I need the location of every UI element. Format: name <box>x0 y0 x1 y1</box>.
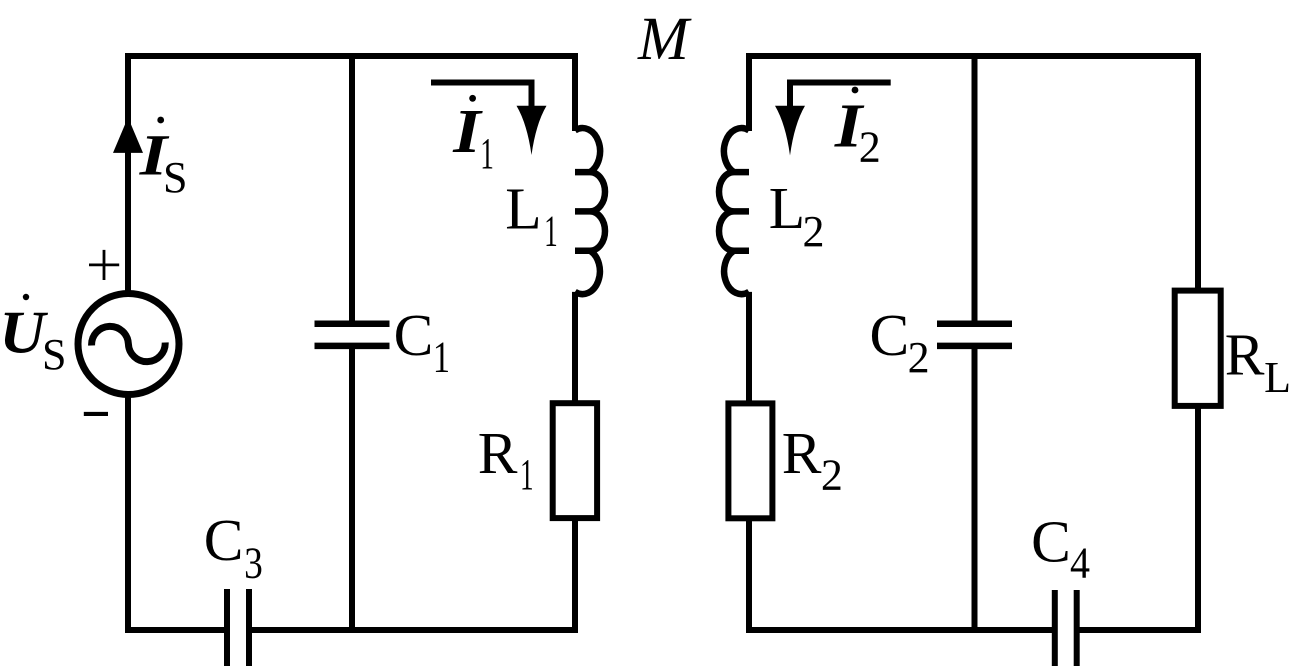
plus sign <box>89 250 119 280</box>
capacitor C3 right plate <box>246 589 252 666</box>
wire: L1 branch top <box>572 56 578 131</box>
dot over I_S <box>157 117 164 124</box>
wire: L1 to R1 <box>572 292 578 403</box>
dot over I_2 <box>852 87 859 94</box>
wire: right circuit top <box>746 53 1201 59</box>
svg-text:2: 2 <box>859 123 881 172</box>
svg-text:C: C <box>394 302 434 368</box>
svg-text:S: S <box>163 153 187 202</box>
capacitor C2 top plate <box>937 321 1012 328</box>
dot over U_S <box>23 294 29 300</box>
wire: L2 branch top <box>746 56 752 131</box>
source U_S circle <box>78 294 179 395</box>
svg-text:3: 3 <box>244 539 263 587</box>
wire: C2 branch upper <box>972 56 978 324</box>
svg-text:L: L <box>769 175 805 241</box>
resistor R2 (box) <box>728 403 772 518</box>
capacitor C1 bottom plate <box>315 343 390 350</box>
svg-text:M: M <box>637 6 692 73</box>
svg-text:1: 1 <box>480 128 494 177</box>
current I1 reference hook <box>431 83 532 109</box>
resistor RL (box) <box>1175 291 1221 406</box>
svg-text:1: 1 <box>544 206 558 255</box>
svg-text:2: 2 <box>908 333 930 382</box>
svg-text:C: C <box>1031 508 1071 574</box>
capacitor C1 top plate <box>315 321 390 328</box>
capacitor C3 left plate <box>224 589 230 666</box>
inductor L1 (coil, 4 turns) <box>575 128 605 294</box>
svg-text:L: L <box>1264 353 1290 402</box>
svg-text:4: 4 <box>1070 540 1090 588</box>
wire: left circuit bottom, right of C3 <box>249 627 578 633</box>
minus sign <box>84 412 108 416</box>
inductor L2 (coil, 4 turns) <box>719 128 749 294</box>
svg-text:I: I <box>452 98 483 166</box>
svg-text:R: R <box>782 420 822 486</box>
wire: L2 to R2 <box>746 292 752 404</box>
wire: left circuit top <box>125 53 578 59</box>
svg-text:2: 2 <box>821 450 843 499</box>
capacitor C4 right plate <box>1074 590 1080 666</box>
svg-text:L: L <box>505 176 541 242</box>
wire: right circuit bottom, left of C4 <box>746 627 1055 633</box>
current I2 arrowhead (down) <box>775 106 805 156</box>
svg-text:2: 2 <box>803 207 825 256</box>
wire: RL branch top <box>1195 56 1201 291</box>
current I1 arrowhead (down) <box>517 106 547 155</box>
capacitor C2 bottom plate <box>937 343 1012 350</box>
svg-text:C: C <box>204 507 244 573</box>
wire: RL to bottom <box>1195 406 1201 633</box>
svg-text:R: R <box>478 420 518 486</box>
svg-text:S: S <box>42 330 66 379</box>
dot over I_1 <box>469 95 476 102</box>
resistor R1 (box) <box>553 403 597 518</box>
wire: C2 branch lower <box>972 346 978 630</box>
wire: right circuit bottom, right of C4 <box>1077 627 1201 633</box>
wire: left circuit left side lower (source to bottom) <box>125 392 131 633</box>
wire: left circuit left side upper (source to top) <box>125 56 131 296</box>
source U_S sine wave <box>92 326 166 361</box>
wire: C1 branch lower <box>349 346 355 630</box>
svg-text:R: R <box>1225 322 1265 388</box>
current IS arrowhead (up) <box>113 117 143 152</box>
current I2 reference hook <box>790 83 891 109</box>
wire: left circuit bottom, left of C3 <box>125 627 227 633</box>
svg-text:C: C <box>870 302 910 368</box>
svg-text:1: 1 <box>433 332 450 381</box>
capacitor C4 left plate <box>1052 590 1058 666</box>
wire: R1 to bottom <box>572 518 578 633</box>
wire: R2 to bottom <box>746 518 752 633</box>
wire: C1 branch upper <box>349 56 355 324</box>
svg-text:1: 1 <box>520 449 534 498</box>
